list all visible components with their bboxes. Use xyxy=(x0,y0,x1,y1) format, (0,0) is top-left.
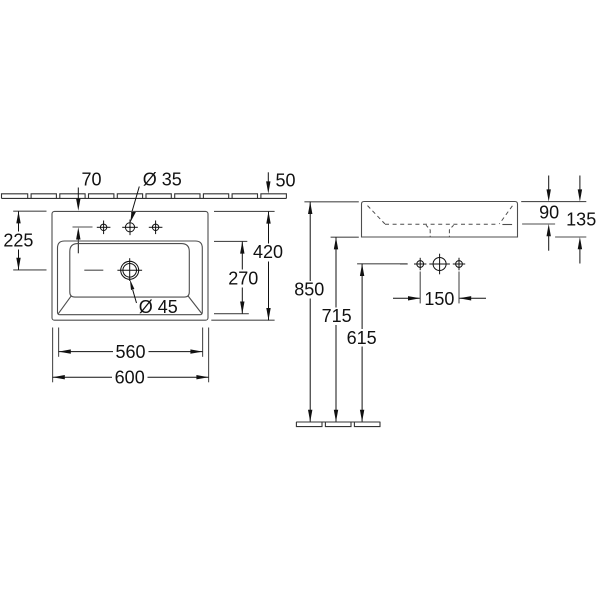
svg-text:560: 560 xyxy=(115,342,145,362)
label 70 (tap hole offset) xyxy=(81,170,101,190)
bowl outer edge (plan view) xyxy=(58,241,203,315)
wall tap hole left (elevation) xyxy=(414,258,426,270)
dimension 600 extension lines xyxy=(53,328,209,383)
dimension 850 extension line xyxy=(304,201,358,203)
label 270 (bowl depth) xyxy=(228,268,258,288)
bowl slope line bottom-right xyxy=(188,296,202,314)
label 90 (rim to bowl bottom) xyxy=(539,203,559,223)
label 600 (basin width) xyxy=(115,367,145,387)
svg-text:Ø 45: Ø 45 xyxy=(139,297,178,317)
dimension 225 extension lines xyxy=(13,211,46,270)
dimension 270 line with arrows xyxy=(240,241,244,313)
svg-text:90: 90 xyxy=(539,203,559,223)
dimension 225 line with arrows xyxy=(16,211,20,270)
label 225 (rear edge to drain) xyxy=(3,230,33,250)
dimension 615 extension line xyxy=(357,263,407,265)
tap hole right (plan) xyxy=(149,221,163,235)
wall tap hole right (elevation) xyxy=(453,258,465,270)
label 50 (wall clearance) xyxy=(275,171,295,191)
dimension 90-135 top extension line xyxy=(521,201,586,203)
dimension 420 line with arrows xyxy=(266,211,270,320)
floor line (elevation) xyxy=(296,421,380,423)
hidden drain funnel right xyxy=(449,225,453,229)
label Ø 35 (tap hole diameter) xyxy=(143,170,182,190)
label 420 (basin depth) xyxy=(253,242,283,262)
dimension 50 arrow (down to wall face) xyxy=(266,172,270,193)
dimension 70 upper arrow (down to basin rear edge) xyxy=(76,188,80,211)
svg-text:715: 715 xyxy=(322,306,352,326)
dimension 90 arrows xyxy=(547,176,551,251)
svg-text:615: 615 xyxy=(347,328,377,348)
dimension 150 extension lines xyxy=(420,272,459,304)
svg-text:150: 150 xyxy=(424,289,454,309)
hidden bowl profile right slope xyxy=(499,206,512,224)
svg-text:850: 850 xyxy=(294,279,324,299)
wall section strip (plan view, tiled wall) xyxy=(2,194,287,199)
svg-text:70: 70 xyxy=(81,170,101,190)
label 560 (bowl rim width) xyxy=(115,342,145,362)
dimension 560 line with arrows xyxy=(59,349,203,353)
dimension 560 extension lines xyxy=(59,328,203,357)
dimension 150 arrows (outside) xyxy=(393,296,486,300)
basin outer rim (plan view) xyxy=(52,211,208,320)
label 150 (tap hole spacing) xyxy=(424,289,454,309)
label 615 (tap hole height) xyxy=(347,328,377,348)
tap centerline dash (elevation) xyxy=(400,263,408,265)
wall tap spout centre (elevation) xyxy=(429,254,450,275)
dimension 850 line with arrows xyxy=(308,202,312,422)
bowl inner bottom edge (plan view) xyxy=(70,244,190,298)
dimension 135 bottom extension line xyxy=(555,236,586,238)
bowl slope line bottom-left xyxy=(58,296,71,314)
leader line Ø 35 xyxy=(130,187,139,223)
svg-text:270: 270 xyxy=(228,268,258,288)
svg-text:600: 600 xyxy=(115,367,145,387)
svg-text:Ø 35: Ø 35 xyxy=(143,170,182,190)
hidden bowl profile left slope xyxy=(368,206,385,224)
hidden bowl profile end segment xyxy=(502,224,512,226)
tap holes centerline dash xyxy=(73,226,93,228)
leader line Ø 45 xyxy=(130,279,137,303)
dimension 135 arrows xyxy=(578,176,582,264)
hidden drain funnel left xyxy=(426,225,430,229)
dimension 70 lower arrow (up to tap centerline) xyxy=(76,227,80,253)
hidden bowl profile bottom xyxy=(385,223,498,225)
dimension 715 line with arrows xyxy=(334,237,338,422)
dimension 270 extension lines xyxy=(214,241,249,313)
dimension 420 extension lines xyxy=(211,211,274,320)
basin front outline xyxy=(362,202,518,238)
dimension 715 extension line xyxy=(331,236,359,238)
dimension 90 bottom extension line xyxy=(522,223,555,225)
tap hole left (plan) xyxy=(97,221,111,235)
label Ø 45 (drain diameter) xyxy=(139,297,178,317)
label 850 (rim height above floor) xyxy=(294,279,324,299)
drain centerline dash xyxy=(84,269,103,271)
tap hole centre Ø35 (plan) xyxy=(122,220,138,236)
floor tiles (elevation) xyxy=(296,422,380,427)
drain hole Ø45 (plan) xyxy=(117,258,142,281)
label 715 (basin underside height) xyxy=(322,306,352,326)
svg-text:135: 135 xyxy=(566,210,596,230)
hidden drain left wall xyxy=(429,230,431,237)
svg-text:420: 420 xyxy=(253,242,283,262)
label 135 (basin height) xyxy=(566,210,596,230)
hidden drain right wall xyxy=(448,230,450,237)
dimension 600 line with arrows xyxy=(53,375,209,379)
dimension 615 line with arrows xyxy=(360,264,364,422)
svg-text:50: 50 xyxy=(275,171,295,191)
svg-text:225: 225 xyxy=(3,230,33,250)
